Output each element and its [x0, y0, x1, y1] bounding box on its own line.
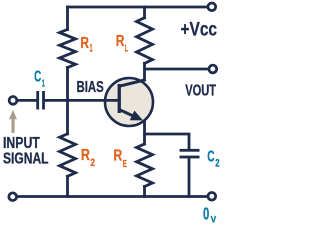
svg-text:2: 2 [90, 157, 95, 169]
svg-text:BIAS: BIAS [77, 79, 104, 96]
svg-text:INPUT: INPUT [3, 135, 40, 152]
svg-text:R: R [114, 148, 123, 165]
svg-text:0: 0 [203, 203, 209, 223]
svg-text:C: C [34, 69, 41, 86]
svg-text:L: L [125, 43, 128, 55]
svg-text:+Vcc: +Vcc [181, 19, 218, 40]
svg-text:R: R [116, 33, 125, 50]
svg-text:1: 1 [42, 77, 45, 89]
svg-text:E: E [123, 158, 127, 170]
svg-text:C: C [207, 149, 214, 166]
svg-text:R: R [81, 147, 90, 164]
svg-text:1: 1 [90, 42, 93, 54]
svg-text:R: R [80, 35, 89, 52]
svg-text:VOUT: VOUT [185, 82, 216, 99]
svg-text:V: V [211, 214, 217, 225]
svg-text:2: 2 [215, 157, 219, 169]
svg-text:SIGNAL: SIGNAL [3, 151, 49, 168]
